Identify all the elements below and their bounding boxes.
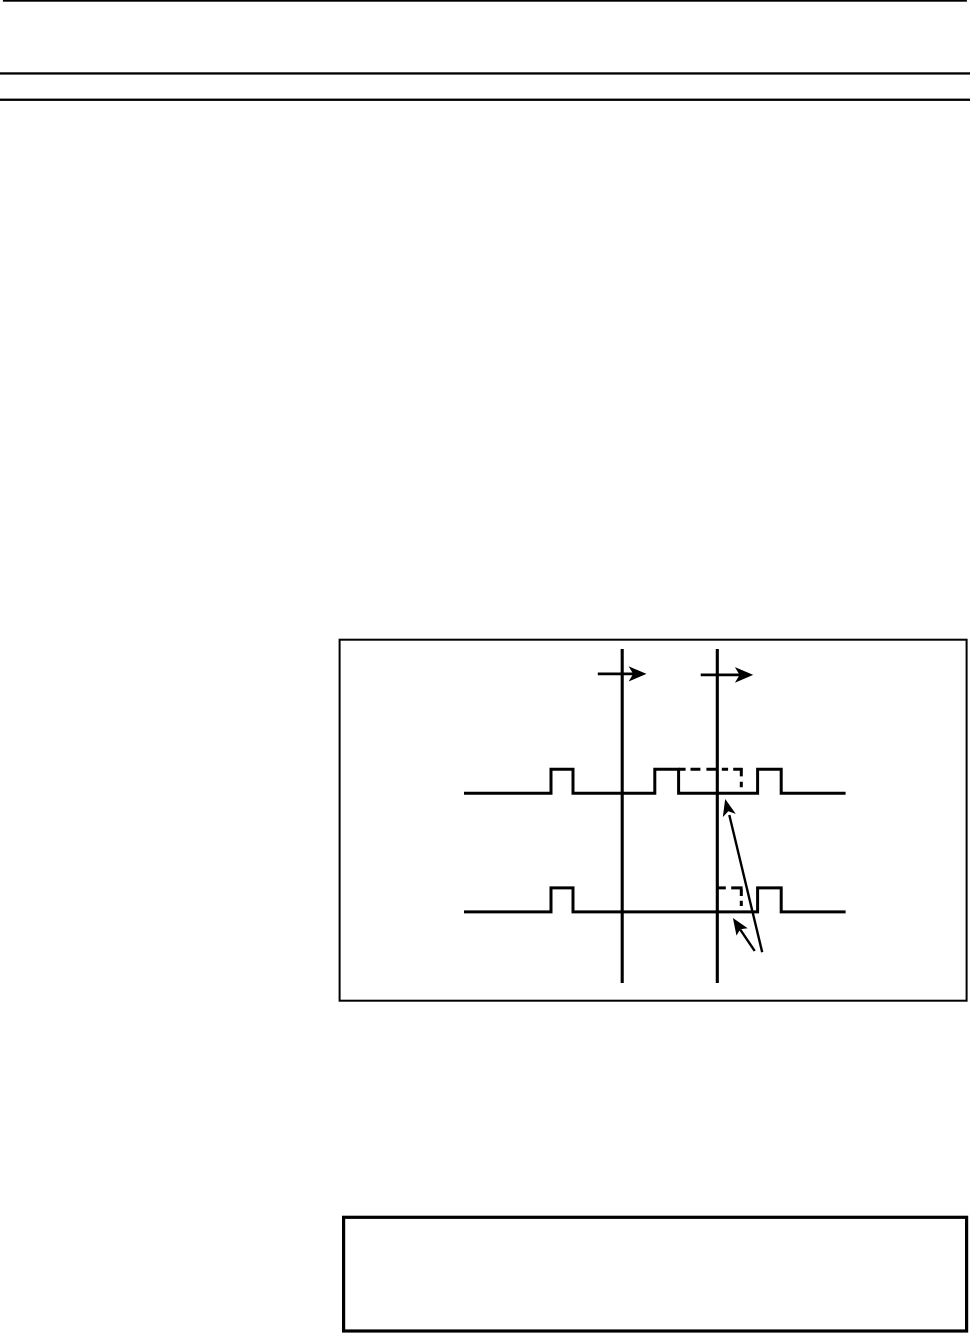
callout arrow short (to lower dashed pulse)	[733, 918, 755, 951]
lower waveform dashed falling edge	[740, 889, 743, 906]
shift arrow left (horizontal)	[598, 666, 647, 681]
header rule lower	[0, 99, 970, 101]
header top rule	[3, 0, 967, 2]
upper waveform dashed pulse top	[679, 768, 743, 771]
grid line left (vertical)	[621, 649, 624, 983]
header rule upper	[0, 72, 970, 74]
upper waveform dashed falling edge	[740, 768, 743, 787]
figure frame box	[340, 640, 967, 1001]
grid line right (vertical)	[716, 649, 719, 983]
lower waveform dashed pulse top	[717, 886, 742, 889]
upper waveform (solid)	[464, 769, 846, 793]
shift arrow right (horizontal)	[701, 667, 754, 683]
note box (bottom)	[344, 1217, 967, 1331]
lower waveform (solid)	[464, 888, 846, 912]
callout arrow long (to upper dashed pulse)	[723, 799, 762, 952]
